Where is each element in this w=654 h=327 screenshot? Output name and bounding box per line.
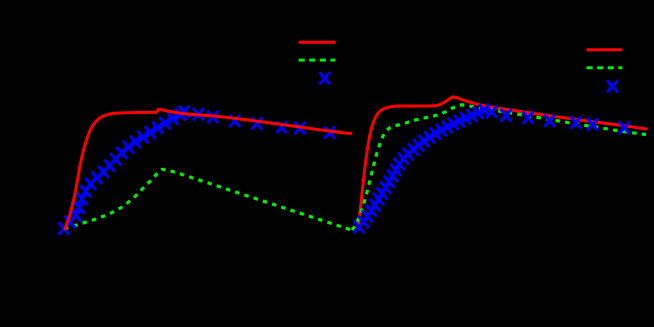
right legend blue X sample	[607, 80, 618, 92]
left legend red sample	[299, 41, 336, 44]
right legend red sample	[587, 48, 623, 51]
right panel blue X markers	[354, 104, 630, 233]
left panel green dashed curve	[64, 169, 351, 230]
right legend green dashed sample	[587, 66, 623, 69]
right panel green dashed curve	[352, 105, 646, 230]
left legend blue X sample	[319, 72, 330, 84]
left legend green dashed sample	[299, 59, 336, 62]
left panel red solid curve	[65, 109, 351, 229]
right panel red solid curve	[358, 97, 646, 229]
left panel blue X markers	[59, 106, 336, 235]
